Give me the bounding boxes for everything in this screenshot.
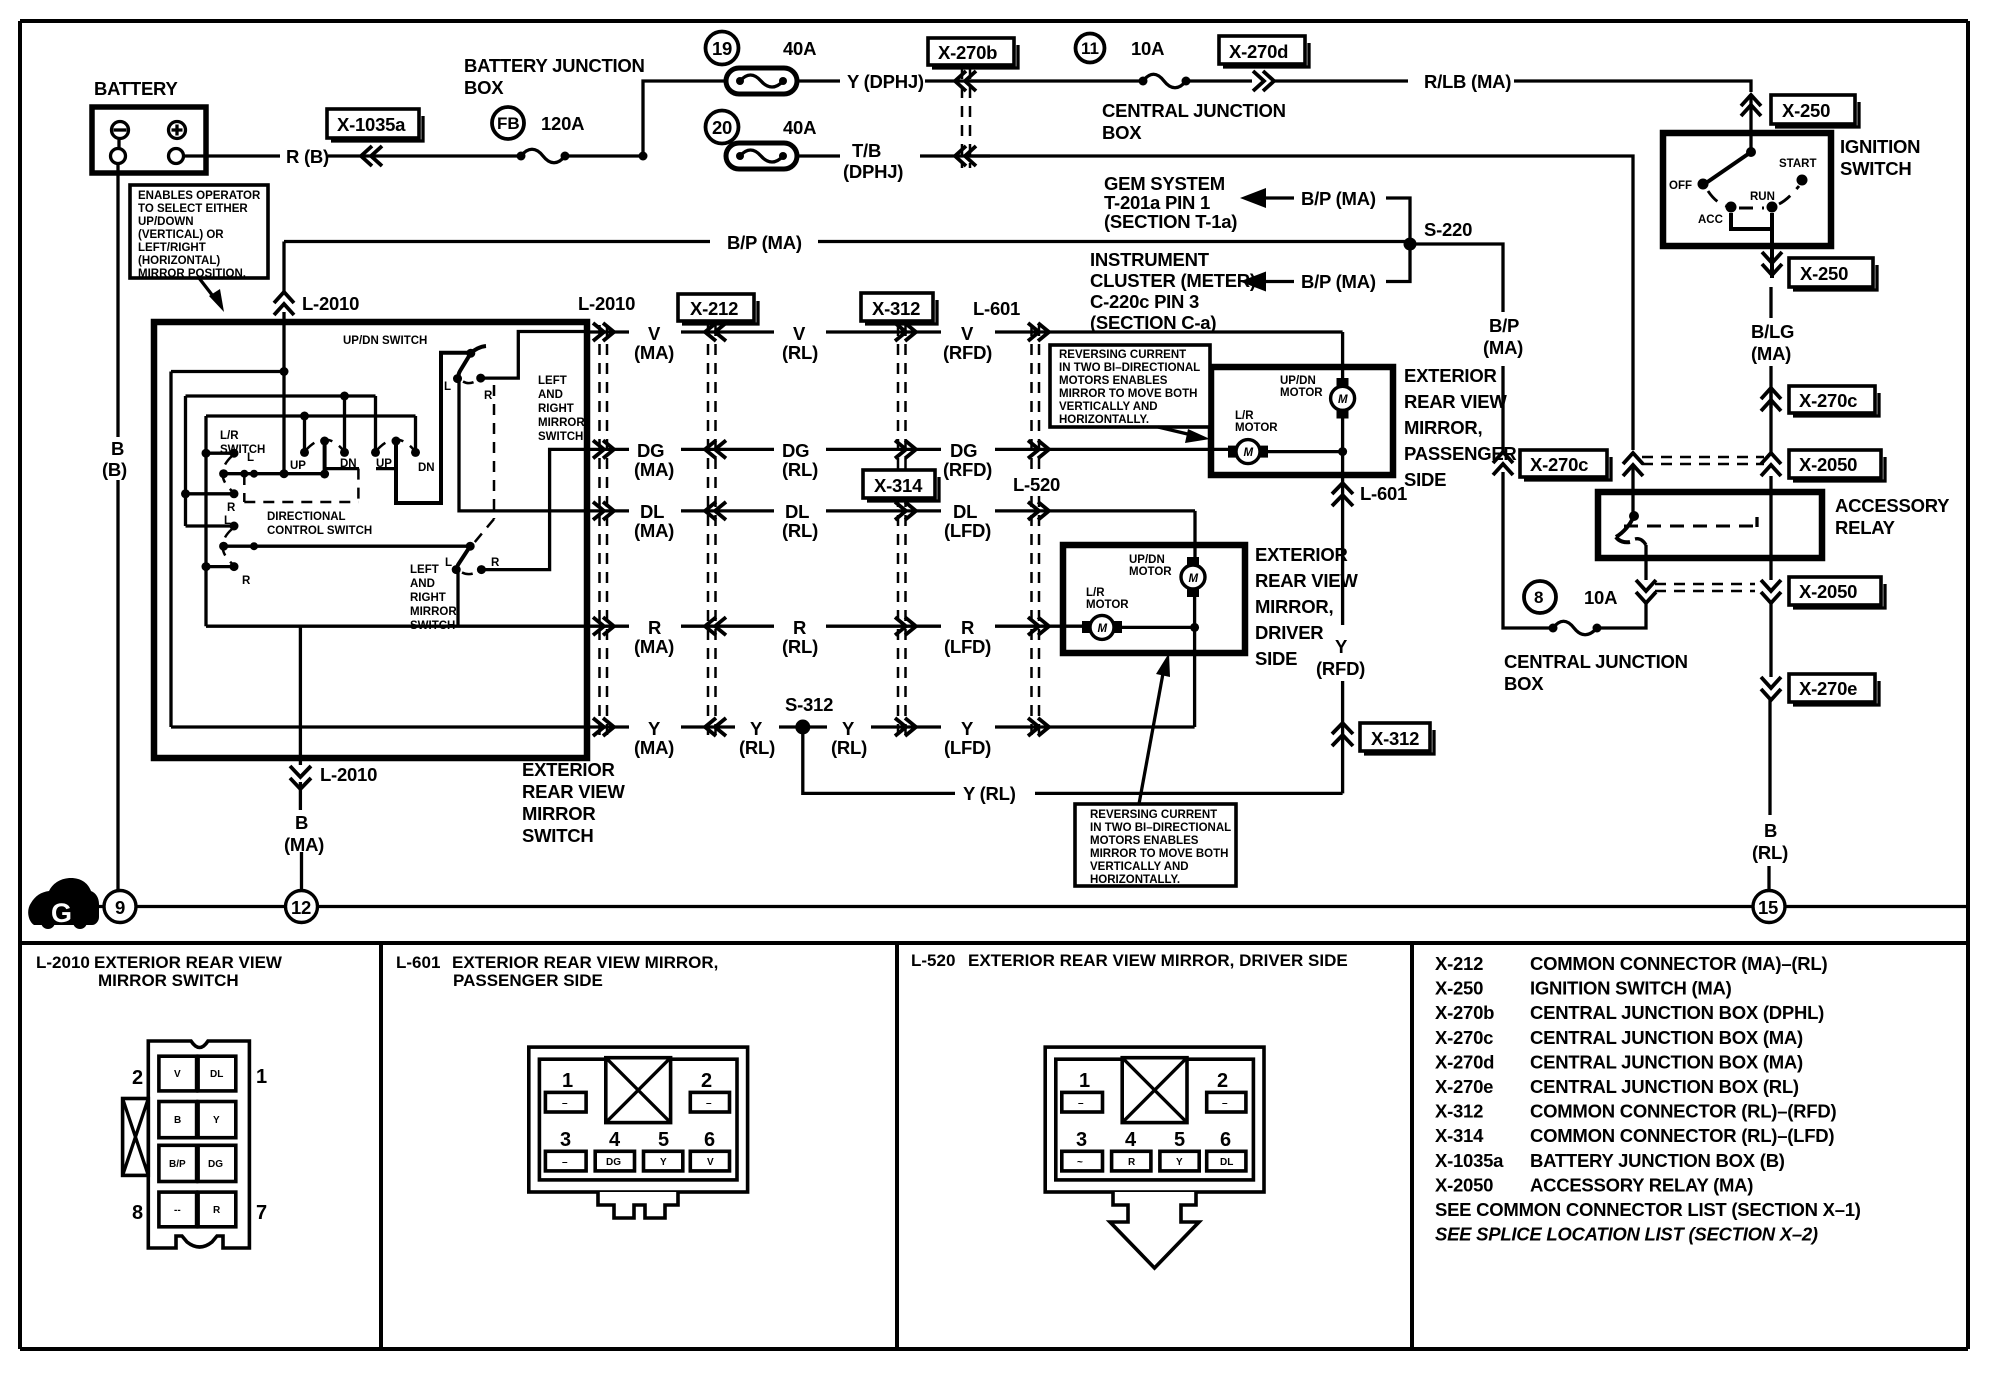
svg-text:9: 9 bbox=[115, 897, 125, 918]
passenger UP/DN motor bbox=[1337, 378, 1349, 386]
DL row wire bbox=[587, 509, 1195, 512]
svg-text:(MA): (MA) bbox=[634, 520, 674, 541]
L-601 pin slots row2 bbox=[545, 1151, 586, 1171]
rail3 H2 horizontal bbox=[206, 414, 416, 417]
chevron up X-270c right bbox=[1761, 388, 1781, 411]
L-520 connector outer bbox=[1045, 1047, 1264, 1192]
relay dashed actuator bbox=[1624, 525, 1756, 528]
wire passenger box to L-601 chevron bbox=[1341, 475, 1344, 625]
svg-text:(RL): (RL) bbox=[739, 737, 775, 758]
svg-text:(RL): (RL) bbox=[782, 459, 818, 480]
svg-text:MIRROR TO MOVE BOTH: MIRROR TO MOVE BOTH bbox=[1090, 848, 1228, 860]
svg-text:X-270c: X-270c bbox=[1530, 454, 1588, 475]
fuse 19 body bbox=[726, 68, 797, 94]
callout arrow to switch box bbox=[199, 278, 216, 300]
V wire drop to UP/DN motor bbox=[1341, 332, 1344, 383]
wire to B/LG label bbox=[1769, 287, 1772, 318]
svg-text:L/R: L/R bbox=[220, 430, 239, 442]
panel divider 3 bbox=[1410, 943, 1414, 1349]
svg-text:L-601: L-601 bbox=[973, 298, 1020, 319]
RUN contact bbox=[1767, 202, 1778, 213]
L-2010 connector body bbox=[148, 1041, 249, 1248]
svg-text:LEFT: LEFT bbox=[538, 375, 567, 387]
svg-text:R (B): R (B) bbox=[286, 146, 329, 167]
ACC to RUN wire bbox=[1731, 213, 1772, 246]
selector-1 L contact bbox=[453, 374, 462, 383]
X-270b label box bbox=[928, 38, 1014, 65]
L-601 key square bbox=[606, 1058, 671, 1123]
svg-text:2: 2 bbox=[1217, 1070, 1228, 1092]
fuse 20 body bbox=[726, 143, 797, 169]
svg-text:T/B: T/B bbox=[852, 140, 881, 161]
svg-text:B: B bbox=[174, 1115, 181, 1126]
svg-text:LEFT/RIGHT: LEFT/RIGHT bbox=[138, 242, 206, 254]
svg-text:G: G bbox=[51, 898, 72, 928]
UP/DN arc 1 bbox=[306, 440, 343, 451]
chevron left X-270b row1 bbox=[955, 71, 976, 91]
wire B/P rail up bbox=[1501, 366, 1504, 452]
svg-text:EXTERIOR REAR VIEW: EXTERIOR REAR VIEW bbox=[94, 953, 283, 972]
chevron up L-601 bbox=[1332, 483, 1353, 506]
X-312 label box right bbox=[1360, 723, 1430, 751]
svg-text:MOTOR: MOTOR bbox=[1235, 422, 1278, 434]
wiper 1 apex bbox=[320, 437, 329, 446]
callout 1 arrow bbox=[1158, 427, 1196, 436]
svg-text:R: R bbox=[242, 575, 251, 587]
ignition dashed arc OFF-ACC-RUN-START bbox=[1708, 191, 1726, 206]
svg-text:UP: UP bbox=[290, 460, 306, 472]
wiper 1 vertical bbox=[323, 441, 327, 474]
R row wire right of box bbox=[587, 625, 1087, 628]
svg-text:EXTERIOR REAR VIEW MIRROR,: EXTERIOR REAR VIEW MIRROR, bbox=[452, 953, 718, 972]
X-270c label box left bbox=[1520, 450, 1607, 477]
wire to X-312 chevron bbox=[1341, 681, 1344, 793]
DG row wire bbox=[587, 448, 1236, 451]
GEM arrow bbox=[1255, 196, 1294, 199]
svg-text:HORIZONTALLY.: HORIZONTALLY. bbox=[1090, 874, 1180, 886]
DG row chevrons bbox=[593, 440, 614, 458]
junction dot A-rail1 bbox=[280, 367, 289, 376]
svg-text:COMMON CONNECTOR (RL)–(LFD): COMMON CONNECTOR (RL)–(LFD) bbox=[1530, 1125, 1834, 1146]
V row wire bbox=[587, 330, 1343, 333]
bus-2 dot bbox=[250, 542, 258, 550]
svg-text:(RL): (RL) bbox=[831, 737, 867, 758]
svg-text:REVERSING CURRENT: REVERSING CURRENT bbox=[1090, 809, 1217, 821]
svg-text:DN: DN bbox=[418, 462, 435, 474]
L-520 pin slots row2 bbox=[1062, 1151, 1103, 1171]
svg-text:(MA): (MA) bbox=[634, 636, 674, 657]
selector-1 L drop to DL row bbox=[459, 379, 587, 511]
svg-text:MOTOR: MOTOR bbox=[1086, 599, 1129, 611]
svg-text:MIRROR TO MOVE BOTH: MIRROR TO MOVE BOTH bbox=[1059, 388, 1197, 400]
svg-text:B/P (MA): B/P (MA) bbox=[727, 232, 802, 253]
svg-text:SWITCH: SWITCH bbox=[1840, 158, 1911, 179]
driver motor common wire bbox=[1122, 597, 1195, 727]
svg-text:40A: 40A bbox=[783, 117, 816, 138]
selector link dashed vertical bbox=[493, 385, 496, 519]
svg-text:M: M bbox=[1244, 447, 1254, 459]
B/P (MA) main line from switch bbox=[284, 240, 1410, 243]
svg-text:HORIZONTALLY.: HORIZONTALLY. bbox=[1059, 414, 1149, 426]
svg-text:R: R bbox=[491, 557, 500, 569]
svg-text:–: – bbox=[1078, 1098, 1084, 1109]
OFF contact bbox=[1698, 179, 1709, 190]
svg-text:VERTICALLY AND: VERTICALLY AND bbox=[1059, 401, 1158, 413]
L-2010 pin row4 bbox=[159, 1192, 197, 1227]
S-220 stub to GEM bbox=[1386, 198, 1410, 244]
bottom panel top border bbox=[20, 941, 1968, 945]
S-220 stub to cluster bbox=[1386, 244, 1410, 282]
svg-text:EXTERIOR: EXTERIOR bbox=[522, 759, 615, 780]
svg-text:DG: DG bbox=[782, 440, 809, 461]
svg-text:B/P: B/P bbox=[1489, 315, 1519, 336]
svg-text:COMMON CONNECTOR (MA)–(RL): COMMON CONNECTOR (MA)–(RL) bbox=[1530, 953, 1827, 974]
wire junction up to fuse 19 bbox=[643, 81, 726, 156]
svg-text:REAR VIEW: REAR VIEW bbox=[1404, 391, 1507, 412]
svg-text:EXTERIOR REAR VIEW MIRROR, DRI: EXTERIOR REAR VIEW MIRROR, DRIVER SIDE bbox=[968, 951, 1348, 970]
svg-text:DG: DG bbox=[637, 440, 664, 461]
svg-text:SIDE: SIDE bbox=[1404, 469, 1446, 490]
svg-text:~: ~ bbox=[1077, 1157, 1083, 1168]
svg-text:FB: FB bbox=[497, 114, 520, 133]
svg-text:Y: Y bbox=[1176, 1157, 1183, 1168]
svg-text:BATTERY JUNCTION: BATTERY JUNCTION bbox=[464, 55, 645, 76]
svg-text:–: – bbox=[1222, 1098, 1228, 1109]
reversing current callout 1 bbox=[1050, 345, 1210, 427]
svg-text:12: 12 bbox=[291, 897, 311, 918]
svg-text:5: 5 bbox=[658, 1129, 669, 1151]
wiper 2 path down and to selector-1 bbox=[396, 353, 468, 503]
svg-text:RIGHT: RIGHT bbox=[538, 403, 574, 415]
svg-text:(LFD): (LFD) bbox=[944, 520, 991, 541]
wire B/P rail top bbox=[1410, 244, 1503, 312]
svg-text:X-1035a: X-1035a bbox=[337, 114, 406, 135]
svg-text:SIDE: SIDE bbox=[1255, 648, 1297, 669]
svg-text:Y: Y bbox=[213, 1115, 220, 1126]
relay contact tick bbox=[1755, 517, 1758, 527]
svg-text:GEM SYSTEM: GEM SYSTEM bbox=[1104, 173, 1225, 194]
svg-text:Y: Y bbox=[750, 718, 763, 739]
outer frame top border bbox=[20, 19, 1968, 23]
cluster arrow bbox=[1255, 280, 1294, 283]
svg-text:(RL): (RL) bbox=[782, 520, 818, 541]
svg-text:ENABLES OPERATOR: ENABLES OPERATOR bbox=[138, 190, 261, 202]
svg-text:X-312: X-312 bbox=[1371, 728, 1419, 749]
svg-text:X-2050: X-2050 bbox=[1799, 454, 1857, 475]
X-270d label box bbox=[1219, 36, 1305, 64]
svg-text:BOX: BOX bbox=[1504, 673, 1544, 694]
fuse 8 circle bbox=[1524, 581, 1556, 613]
L-2010 side lock tab bbox=[123, 1099, 149, 1176]
fuse 11 element bbox=[1139, 77, 1148, 86]
junction dot driver bbox=[1190, 623, 1199, 632]
ground bus line bbox=[86, 905, 1968, 908]
svg-text:X-270e: X-270e bbox=[1435, 1076, 1493, 1097]
chevron up X-250 top bbox=[1741, 95, 1761, 116]
battery lower-right post bbox=[169, 149, 184, 164]
svg-text:7: 7 bbox=[256, 1202, 267, 1224]
svg-text:(RL): (RL) bbox=[782, 342, 818, 363]
passenger motor common wire bbox=[1268, 414, 1343, 475]
svg-text:CENTRAL JUNCTION BOX (DPHL): CENTRAL JUNCTION BOX (DPHL) bbox=[1530, 1002, 1824, 1023]
svg-text:(MA): (MA) bbox=[634, 459, 674, 480]
svg-text:IGNITION: IGNITION bbox=[1840, 136, 1920, 157]
svg-text:(LFD): (LFD) bbox=[944, 737, 991, 758]
ACC contact bbox=[1726, 202, 1737, 213]
L2 contact branch bbox=[186, 524, 235, 527]
svg-text:X-250: X-250 bbox=[1782, 100, 1830, 121]
relay right rail through box bbox=[1769, 476, 1772, 580]
X-2050 label box upper bbox=[1789, 450, 1881, 478]
V row chevrons bbox=[593, 323, 614, 341]
fuse FB circle bbox=[492, 107, 524, 139]
svg-text:DL: DL bbox=[785, 501, 809, 522]
svg-text:R: R bbox=[648, 617, 661, 638]
svg-text:CENTRAL JUNCTION: CENTRAL JUNCTION bbox=[1504, 651, 1688, 672]
svg-text:B: B bbox=[295, 812, 308, 833]
fuse 8 feed wire bbox=[1597, 603, 1646, 628]
svg-text:R: R bbox=[961, 617, 974, 638]
svg-text:UP/DN: UP/DN bbox=[1280, 375, 1316, 387]
X-2050 lower dashed plane bbox=[1655, 584, 1755, 591]
svg-text:(LFD): (LFD) bbox=[944, 636, 991, 657]
svg-text:DIRECTIONAL: DIRECTIONAL bbox=[267, 511, 346, 523]
L-520 key square bbox=[1122, 1058, 1187, 1123]
svg-text:R: R bbox=[484, 390, 493, 402]
svg-text:L: L bbox=[444, 381, 451, 393]
svg-text:IGNITION SWITCH (MA): IGNITION SWITCH (MA) bbox=[1530, 978, 1732, 999]
svg-text:PASSENGER: PASSENGER bbox=[1404, 443, 1517, 464]
selector-2 R to DG row bbox=[481, 449, 587, 569]
svg-text:X-270d: X-270d bbox=[1229, 41, 1288, 62]
mech dashed horizontal bbox=[244, 501, 358, 504]
svg-text:DRIVER: DRIVER bbox=[1255, 622, 1323, 643]
svg-text:(RL): (RL) bbox=[1752, 842, 1788, 863]
rail1 vertical bbox=[169, 372, 172, 728]
UP1 contact drop bbox=[303, 416, 306, 452]
bus-2 to selector-2 pivot bbox=[224, 545, 470, 548]
battery minus terminal bbox=[112, 122, 129, 139]
outer frame left border bbox=[18, 21, 22, 943]
driver mirror box bbox=[1063, 545, 1245, 653]
X-212 label box bbox=[678, 294, 754, 321]
wire B/P down to mirror switch box bbox=[282, 242, 285, 323]
START contact bbox=[1797, 175, 1808, 186]
svg-text:4: 4 bbox=[1125, 1129, 1137, 1151]
chevron left X-270b row2 bbox=[955, 146, 976, 166]
svg-text:(MA): (MA) bbox=[1751, 343, 1791, 364]
svg-text:REVERSING CURRENT: REVERSING CURRENT bbox=[1059, 349, 1186, 361]
svg-text:EXTERIOR: EXTERIOR bbox=[1255, 544, 1348, 565]
S-220 junction bbox=[1404, 238, 1417, 251]
X-270b dashed connector pair bbox=[962, 68, 970, 168]
svg-text:(MA): (MA) bbox=[634, 737, 674, 758]
svg-text:B/P (MA): B/P (MA) bbox=[1301, 188, 1376, 209]
svg-text:ACCESSORY RELAY (MA): ACCESSORY RELAY (MA) bbox=[1530, 1174, 1753, 1195]
svg-text:8: 8 bbox=[1534, 588, 1543, 607]
svg-text:VERTICALLY AND: VERTICALLY AND bbox=[1090, 861, 1189, 873]
chevron down X-2050 lower left bbox=[1636, 580, 1656, 603]
svg-text:L-2010: L-2010 bbox=[36, 953, 90, 972]
svg-text:BATTERY JUNCTION BOX (B): BATTERY JUNCTION BOX (B) bbox=[1530, 1150, 1785, 1171]
svg-text:V: V bbox=[174, 1069, 181, 1080]
svg-text:V: V bbox=[961, 323, 974, 344]
svg-text:--: -- bbox=[174, 1205, 181, 1216]
L/R arc upper bbox=[223, 456, 233, 491]
chevron up L-2010 entry bbox=[274, 292, 294, 315]
svg-text:–: – bbox=[706, 1098, 712, 1109]
L/R wiper1 dot bbox=[219, 469, 228, 478]
svg-text:3: 3 bbox=[1076, 1129, 1087, 1151]
wire out of ignition bbox=[1770, 246, 1774, 278]
svg-text:DL: DL bbox=[1220, 1157, 1233, 1168]
fuse 11 circle bbox=[1076, 34, 1105, 63]
L1 contact branch bbox=[206, 452, 234, 455]
svg-text:BATTERY: BATTERY bbox=[94, 78, 178, 99]
svg-text:Y: Y bbox=[660, 1157, 667, 1168]
passenger L/R motor bbox=[1228, 446, 1236, 458]
G car ground symbol bbox=[28, 878, 99, 925]
svg-text:2: 2 bbox=[701, 1070, 712, 1092]
wire R/LB to ignition corner bbox=[1514, 81, 1751, 92]
wire X-270e down to B RL bbox=[1768, 700, 1771, 815]
svg-text:SEE COMMON CONNECTOR LIST (SEC: SEE COMMON CONNECTOR LIST (SECTION X–1) bbox=[1435, 1199, 1861, 1220]
svg-text:UP/DOWN: UP/DOWN bbox=[138, 216, 194, 228]
svg-text:ACCESSORY: ACCESSORY bbox=[1835, 495, 1950, 516]
svg-text:CONTROL SWITCH: CONTROL SWITCH bbox=[267, 525, 372, 537]
panel divider 2 bbox=[895, 943, 899, 1349]
svg-text:10A: 10A bbox=[1584, 587, 1617, 608]
svg-text:Y (DPHJ): Y (DPHJ) bbox=[847, 71, 924, 92]
selector-1 R to V row bbox=[481, 332, 587, 379]
svg-text:R: R bbox=[1128, 1157, 1136, 1168]
svg-text:SEE SPLICE LOCATION LIST (SECT: SEE SPLICE LOCATION LIST (SECTION X–2) bbox=[1435, 1224, 1818, 1245]
rail3 vertical bbox=[204, 416, 207, 626]
L-2010 connector dashed column bbox=[600, 325, 608, 737]
battery lower-left post bbox=[111, 149, 126, 164]
svg-text:MIRROR: MIRROR bbox=[538, 417, 585, 429]
L-601 connector outer bbox=[529, 1047, 748, 1192]
svg-text:ACC: ACC bbox=[1698, 214, 1723, 226]
wire box bottom to ground bbox=[300, 758, 301, 890]
L-2010 pin row3 bbox=[159, 1145, 197, 1181]
svg-text:R: R bbox=[227, 502, 236, 514]
svg-text:X-250: X-250 bbox=[1800, 263, 1848, 284]
R row chevrons bbox=[593, 617, 614, 635]
svg-text:Y: Y bbox=[648, 718, 661, 739]
L-520 bottom arrow tab bbox=[1110, 1192, 1199, 1268]
bottom panel bottom border bbox=[20, 1347, 1968, 1351]
L/R wiper2 dot bbox=[219, 542, 228, 551]
svg-text:L-601: L-601 bbox=[396, 953, 440, 972]
svg-text:DL: DL bbox=[640, 501, 664, 522]
rail1 horizontal bbox=[171, 370, 284, 373]
wire into ignition switch bbox=[1749, 95, 1752, 152]
wiper2 label stub bbox=[376, 467, 396, 470]
outer frame right border bbox=[1966, 21, 1970, 1349]
rail2 H1 horizontal bbox=[186, 394, 376, 397]
feed vertical A bbox=[282, 322, 285, 474]
svg-text:5: 5 bbox=[1174, 1129, 1185, 1151]
svg-text:X-312: X-312 bbox=[1435, 1101, 1483, 1122]
fuse FB element bbox=[517, 152, 526, 161]
bus-1 dots bbox=[240, 470, 248, 478]
svg-text:(VERTICAL) OR: (VERTICAL) OR bbox=[138, 229, 224, 241]
Y row wire bbox=[587, 725, 1195, 728]
svg-text:X-250: X-250 bbox=[1435, 978, 1483, 999]
UP2 contact drop bbox=[374, 396, 377, 452]
wire R(B) battery to fuse FB bbox=[184, 154, 519, 157]
svg-text:X-312: X-312 bbox=[872, 298, 920, 319]
selector-2 pivot bbox=[466, 542, 475, 551]
fuse 19 circle bbox=[706, 32, 739, 65]
label L-520 col bbox=[1008, 472, 1060, 494]
H2 junction dot bbox=[300, 412, 309, 421]
svg-text:DG: DG bbox=[950, 440, 977, 461]
svg-text:R/LB (MA): R/LB (MA) bbox=[1424, 71, 1511, 92]
relay common dot bbox=[1629, 511, 1639, 521]
svg-text:IN TWO BI–DIRECTIONAL: IN TWO BI–DIRECTIONAL bbox=[1090, 822, 1231, 834]
panel divider 1 bbox=[379, 943, 383, 1349]
svg-text:OFF: OFF bbox=[1669, 180, 1692, 192]
svg-text:T-201a PIN 1: T-201a PIN 1 bbox=[1104, 192, 1210, 213]
selector-1 dashed arc bbox=[463, 381, 476, 383]
bottom panel left border bbox=[18, 943, 22, 1349]
svg-text:(RFD): (RFD) bbox=[943, 459, 992, 480]
svg-text:S-312: S-312 bbox=[785, 694, 833, 715]
svg-text:L-2010: L-2010 bbox=[302, 293, 359, 314]
relay blade bbox=[1616, 516, 1634, 542]
L-2010 pin row1 bbox=[159, 1056, 197, 1091]
svg-text:(RFD): (RFD) bbox=[943, 342, 992, 363]
selector-2 L contact bbox=[452, 565, 461, 574]
relay lower-left pin bbox=[1644, 545, 1647, 580]
Y RL bottom run bbox=[803, 727, 1343, 793]
svg-text:L-520: L-520 bbox=[1013, 474, 1060, 495]
svg-text:RUN: RUN bbox=[1750, 191, 1775, 203]
junction dot passenger bbox=[1338, 447, 1347, 456]
chevron right R/LB bbox=[1253, 71, 1274, 91]
svg-text:6: 6 bbox=[1220, 1129, 1231, 1151]
svg-text:MOTORS ENABLES: MOTORS ENABLES bbox=[1090, 835, 1199, 847]
L-601 L-520 connector dashed column bbox=[1032, 325, 1040, 737]
chevron down L-2010 exit bbox=[290, 766, 311, 789]
svg-text:CENTRAL JUNCTION: CENTRAL JUNCTION bbox=[1102, 100, 1286, 121]
DN1 contact drop bbox=[343, 396, 346, 452]
mirror switch box bbox=[154, 322, 587, 758]
svg-text:EXTERIOR: EXTERIOR bbox=[1404, 365, 1497, 386]
X-250 label box top bbox=[1771, 95, 1855, 124]
wire B/LG to X-270c bbox=[1769, 366, 1772, 408]
svg-text:(DPHJ): (DPHJ) bbox=[843, 161, 903, 182]
svg-text:(RL): (RL) bbox=[782, 636, 818, 657]
wire FB to junction bbox=[565, 154, 643, 157]
H1 junction dot bbox=[340, 392, 349, 401]
svg-text:C-220c PIN 3: C-220c PIN 3 bbox=[1090, 291, 1199, 312]
svg-text:V: V bbox=[648, 323, 661, 344]
svg-text:(MA): (MA) bbox=[1483, 337, 1523, 358]
svg-text:L-601: L-601 bbox=[1360, 483, 1407, 504]
svg-text:MOTOR: MOTOR bbox=[1129, 566, 1172, 578]
svg-text:SWITCH: SWITCH bbox=[522, 825, 593, 846]
svg-text:3: 3 bbox=[560, 1129, 571, 1151]
Y row exit line bbox=[171, 725, 587, 728]
L-601 connector inner bbox=[539, 1059, 737, 1180]
svg-text:CENTRAL JUNCTION BOX (MA): CENTRAL JUNCTION BOX (MA) bbox=[1530, 1051, 1803, 1072]
wire chevron to R/LB label bbox=[1274, 79, 1408, 82]
X-2050 upper dashed plane bbox=[1642, 457, 1764, 464]
wiper 2 apex bbox=[392, 437, 401, 446]
